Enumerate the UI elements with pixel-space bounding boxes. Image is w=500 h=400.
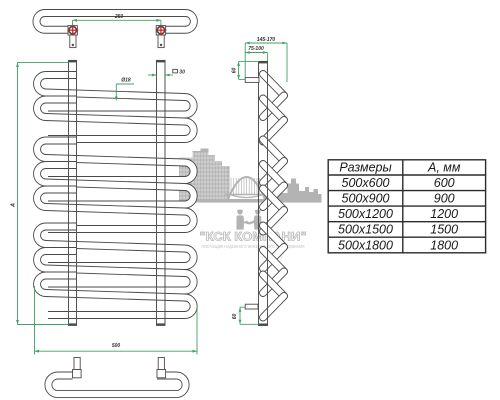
top view: right mount bracket [156,26,165,48]
svg-text:60: 60 [232,314,238,320]
side zigzag row 1 back [263,96,284,118]
dimension square 30 post profile [148,74,173,76]
side zigzag row 8 back [263,296,284,318]
serpentine row 3 [37,141,194,181]
watermark: handshake figures [236,209,261,229]
svg-text:500х1800: 500х1800 [338,238,393,252]
svg-text:500х1200: 500х1200 [338,207,393,221]
dimension 60 top (side view) [239,61,259,79]
svg-text:900: 900 [434,192,455,206]
bottom view: right bracket [157,358,166,378]
dimension 60 bottom (side view) [240,307,259,324]
side zigzag row 6 out [263,226,284,248]
dimension D18 tube diameter leader [116,84,134,98]
svg-text:А, мм: А, мм [427,161,461,175]
bottom view: rail tube (stadium) [48,376,185,395]
svg-text:1800: 1800 [430,238,458,252]
side zigzag row 5 back [263,210,284,232]
svg-text:600: 600 [434,176,455,190]
dimension A (front view height) [18,62,69,324]
side zigzag row 8 out [263,275,284,297]
dimension 75-100 (side view) [245,53,267,62]
svg-text:Размеры: Размеры [339,161,391,175]
svg-text:60: 60 [232,68,238,74]
svg-text:30: 30 [179,70,185,76]
svg-text:1200: 1200 [430,207,458,221]
left post (front view) [69,60,77,325]
right post (front view) [157,60,166,325]
svg-text:500х900: 500х900 [342,192,390,206]
svg-text:А: А [11,203,17,208]
serpentine row 1 [37,75,194,115]
svg-text:"КСК КОМПАНИ": "КСК КОМПАНИ" [200,230,307,244]
side zigzag row 6 back [263,247,284,269]
serpentine row 2 [37,100,194,140]
side zigzag row 4 out [263,164,284,186]
side zigzag row 1 out [263,74,284,96]
side zigzag row 3 out [263,140,284,162]
side zigzag row 5 out [263,189,284,211]
dimension 250 (top view) [73,20,161,25]
bottom view: left bracket [73,358,82,378]
side zigzag row 2 back [263,120,284,142]
side view: bottom wall bracket [245,304,258,309]
side zigzag row 7 out [263,250,284,272]
svg-text:500х600: 500х600 [342,176,390,190]
side zigzag row 3 back [263,161,284,183]
svg-text:Ø18: Ø18 [121,78,131,84]
side view: post [259,61,268,325]
size table [328,160,485,253]
svg-text:500х1500: 500х1500 [338,223,393,237]
side zigzag row 2 out [263,99,284,121]
svg-text:500: 500 [112,343,121,349]
svg-text:1500: 1500 [430,223,458,237]
serpentine row 5 [37,190,194,230]
top view: left mount bracket [68,26,77,48]
top view: rail tube (stadium) [36,13,193,30]
dimension 145-170 (side view) [245,43,287,82]
side zigzag row 7 back [263,272,284,294]
svg-text:75-100: 75-100 [248,46,264,52]
svg-text:250: 250 [114,14,124,20]
serpentine row 4 [37,165,194,205]
watermark: city skyline [179,149,230,203]
serpentine row 8 [37,276,194,316]
side view: top wall bracket [245,78,259,83]
dimension 500 (front view width) [35,286,198,355]
serpentine row 6 [37,227,194,267]
serpentine row 7 [37,251,194,291]
side zigzag row 4 back [263,186,284,208]
svg-text:145-170: 145-170 [257,37,276,43]
svg-text:ПОСТАВЩИК НАДЕЖНОГО ИНЖЕНЕРНОГ: ПОСТАВЩИК НАДЕЖНОГО ИНЖЕНЕРНОГО ОБОРУДОВ… [202,244,305,249]
